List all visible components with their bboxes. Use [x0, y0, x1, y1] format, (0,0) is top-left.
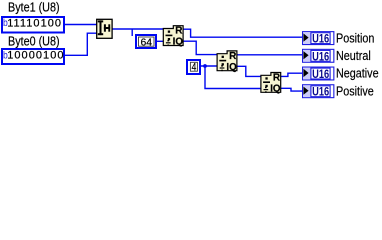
- svg-text:IQ: IQ: [173, 37, 184, 48]
- svg-text:10000100: 10000100: [7, 50, 64, 62]
- svg-text:11110100: 11110100: [7, 18, 62, 30]
- svg-text:Positive: Positive: [336, 84, 374, 99]
- svg-text:Position: Position: [336, 30, 374, 45]
- svg-text:Negative: Negative: [336, 66, 379, 81]
- svg-text:U16: U16: [312, 32, 329, 46]
- svg-text:4: 4: [192, 61, 197, 73]
- svg-text:Byte1 (U8): Byte1 (U8): [8, 0, 60, 15]
- svg-text:Neutral: Neutral: [336, 48, 371, 63]
- svg-text:R: R: [175, 26, 183, 37]
- svg-text:64: 64: [141, 37, 153, 48]
- svg-text:Byte0 (U8): Byte0 (U8): [8, 34, 60, 49]
